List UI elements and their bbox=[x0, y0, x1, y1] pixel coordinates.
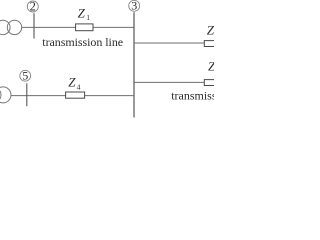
svg-text:Z: Z bbox=[78, 5, 86, 20]
svg-text:Z: Z bbox=[68, 75, 76, 90]
svg-text:2: 2 bbox=[30, 0, 36, 14]
transformer T2 (two overlapping circles, bottom left, clipped) bbox=[0, 87, 11, 103]
wire right lower: bus 3 to Z3 bbox=[134, 81, 204, 83]
impedance Z3 box (clipped at right edge) bbox=[204, 80, 216, 86]
transformer T1 (two overlapping circles, top left) bbox=[0, 20, 22, 34]
svg-text:5: 5 bbox=[22, 69, 28, 83]
svg-text:Z: Z bbox=[207, 22, 214, 37]
svg-text:3: 3 bbox=[131, 0, 137, 13]
bus 5 tick bbox=[26, 83, 28, 106]
bus 3 vertical busbar bbox=[133, 12, 135, 117]
node label 5 (circled) bbox=[20, 69, 31, 83]
svg-text:1: 1 bbox=[86, 13, 90, 22]
svg-text:Z: Z bbox=[208, 58, 214, 73]
wire right upper: bus 3 to Z2 bbox=[134, 42, 204, 44]
impedance Z4 box bbox=[66, 92, 85, 98]
impedance Z2 box (clipped at right edge) bbox=[204, 41, 216, 47]
svg-text:4: 4 bbox=[77, 83, 81, 92]
impedance Z1 box bbox=[76, 24, 93, 31]
svg-text:transmission line: transmission line bbox=[42, 35, 123, 49]
wire top: transformer to bus 3 bbox=[22, 26, 134, 28]
label Z1 bbox=[78, 5, 91, 22]
label Z4 bbox=[68, 75, 80, 92]
node label 3 (circled) bbox=[129, 0, 140, 13]
wire bottom: transformer to bus 3 bbox=[11, 95, 134, 97]
bus 2 tick bbox=[33, 13, 35, 38]
svg-text:transmission line: transmission line bbox=[171, 89, 214, 103]
node label 2 (circled) bbox=[27, 0, 38, 14]
